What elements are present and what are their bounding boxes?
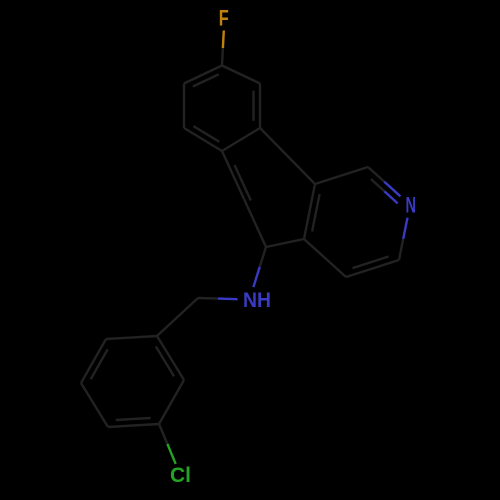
pyridine edge P4-P5: [346, 260, 399, 277]
ring A edge TL-T: [184, 66, 222, 84]
ring A edge TR-BR: [259, 84, 261, 129]
pyridine double P2-P3 inner: [312, 194, 320, 231]
bond X=C1 inner: [235, 165, 251, 201]
pyridine double N=P1 inner: [371, 179, 398, 203]
bond C1-N(H) amine: [253, 247, 266, 287]
ring A double B-BL inner: [193, 126, 219, 142]
ring A edge BR-B: [222, 128, 260, 151]
svg-text:N: N: [405, 192, 416, 217]
bond F-C(ring A) upper: [222, 31, 224, 66]
ring C double L3-L4 inner: [91, 349, 108, 379]
bond Y-BR: [260, 128, 288, 156]
ring C edge Ar-M2: [157, 336, 184, 380]
bond C1-P3: [266, 239, 304, 247]
bond B-X: [222, 151, 244, 199]
ring C edge L3-L4: [81, 339, 106, 383]
svg-text:Cl: Cl: [170, 464, 191, 487]
ring C edge B3-L3: [81, 383, 108, 427]
bond CH2-Ar ipso: [157, 298, 198, 336]
ring C edge L4-Ar: [106, 336, 157, 339]
ring A edge BL-TL: [183, 84, 185, 129]
ring A edge T-TR: [222, 66, 260, 84]
pyridine edge P1-P2: [315, 167, 368, 184]
ring A double TR-BR inner: [252, 91, 254, 121]
pyridine double P4-P5 inner: [353, 257, 389, 269]
pyridine edge P2-P3: [304, 184, 315, 239]
pyridine double N=P1 main: [368, 167, 400, 196]
ring C double Ar-M2 inner: [156, 346, 174, 376]
pyridine edge P3-P4: [304, 239, 346, 277]
ring C double BCl-B3 inner: [116, 418, 151, 420]
ring C edge M2-BCl: [159, 380, 184, 424]
bond C-Cl: [159, 424, 176, 464]
svg-text:F: F: [219, 6, 229, 31]
bond X=C1 main: [244, 199, 266, 247]
pyridine edge P5-N: [399, 218, 408, 260]
bond N(H)-CH2: [198, 298, 238, 299]
svg-text:NH: NH: [243, 289, 271, 312]
bond P2-Y: [288, 156, 316, 184]
ring C edge BCl-B3: [108, 424, 159, 427]
ring A double TL-T inner: [193, 74, 219, 86]
ring A edge B-BL: [184, 128, 222, 151]
